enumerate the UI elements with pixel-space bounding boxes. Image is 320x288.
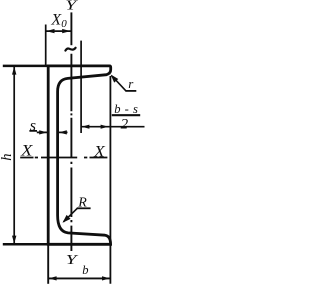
R label underline bbox=[77, 207, 91, 209]
r leader arrowhead bbox=[111, 74, 119, 82]
R leader line bbox=[64, 208, 78, 222]
tilde break mark on Y axis bbox=[65, 48, 75, 51]
(b-s)/2 left extension line bbox=[80, 41, 82, 133]
Y axis centerline dash segments bbox=[70, 54, 72, 251]
svg-text:b: b bbox=[82, 263, 88, 277]
bottom face extension line (left) bbox=[3, 243, 48, 246]
b dimension line bbox=[48, 277, 110, 279]
svg-text:s: s bbox=[30, 118, 36, 135]
X0 dimension line bbox=[46, 30, 71, 32]
R leader arrowhead bbox=[63, 215, 71, 223]
channel profile outline bbox=[48, 66, 110, 244]
s dimension arrowheads bbox=[39, 130, 47, 134]
(b-s)/2 dimension arrowheads bbox=[81, 125, 89, 129]
svg-text:R: R bbox=[77, 196, 87, 211]
s dimension line left segment with label shelf bbox=[29, 131, 47, 133]
h dimension arrowheads bbox=[12, 67, 16, 75]
svg-text:2: 2 bbox=[121, 116, 129, 132]
(b-s)/2 dimension line bbox=[81, 126, 144, 128]
Y axis centerline upper segment bbox=[70, 12, 72, 45]
fraction bar of (b-s)/2 label bbox=[112, 114, 140, 116]
svg-text:X: X bbox=[20, 143, 33, 160]
X0 left extension line bbox=[45, 25, 47, 66]
r leader line bbox=[112, 76, 126, 91]
X0 dimension arrowheads bbox=[46, 29, 54, 33]
b dimension arrowheads bbox=[49, 276, 57, 280]
h dimension line bbox=[13, 66, 15, 244]
s dimension line right segment bbox=[59, 131, 68, 133]
top face extension line (left) bbox=[3, 65, 48, 68]
svg-text:X: X bbox=[93, 143, 105, 160]
svg-text:b - s: b - s bbox=[114, 102, 138, 116]
X-X axis centerline bbox=[20, 157, 107, 159]
web back extension line (down to b dimension) bbox=[47, 245, 49, 284]
svg-text:h: h bbox=[0, 154, 15, 161]
r label underline bbox=[126, 90, 137, 92]
right extension line (flange tip down to b dimension) bbox=[109, 76, 111, 284]
svg-text:0: 0 bbox=[61, 18, 67, 30]
